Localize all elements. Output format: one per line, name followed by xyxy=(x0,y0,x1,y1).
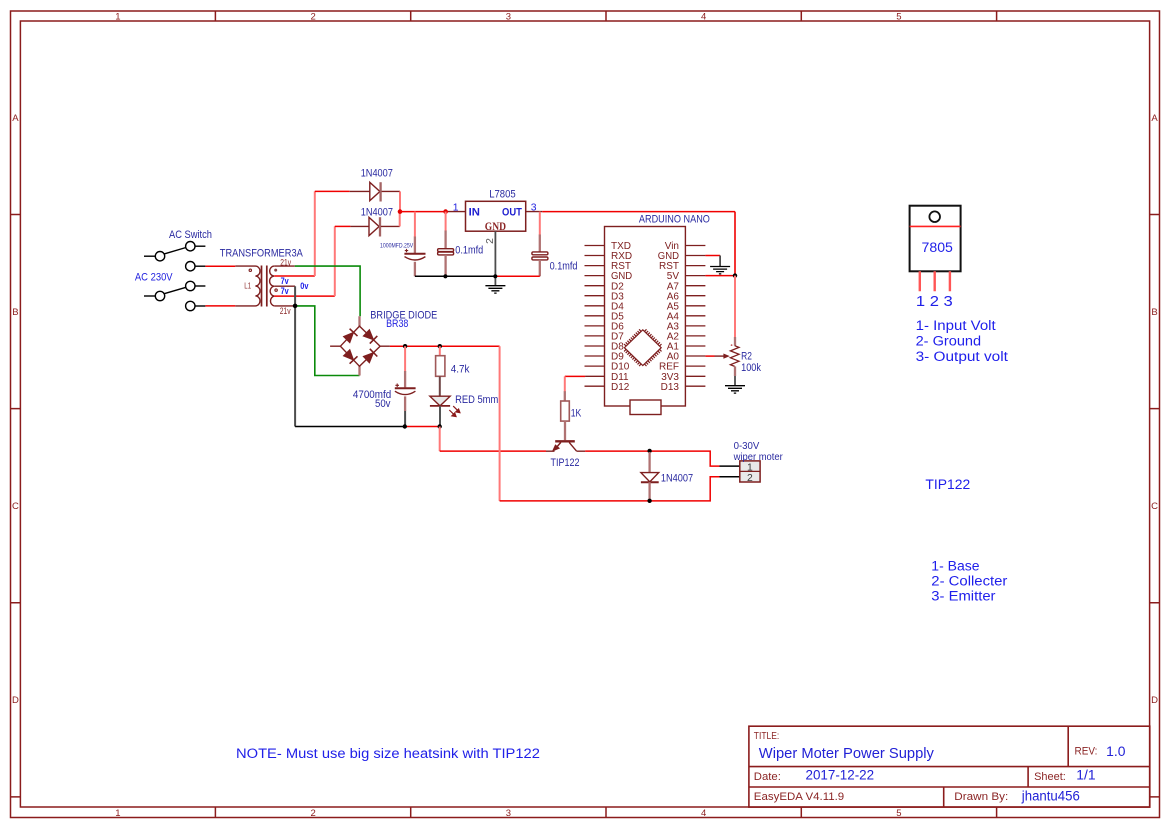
package pins xyxy=(920,271,950,291)
ground symbol at 7805 xyxy=(485,286,505,293)
capacitor C2 0.1mfd xyxy=(438,212,484,277)
wire N (switch to transformer primary bottom) xyxy=(205,305,235,307)
right pin names xyxy=(658,241,680,393)
pin GND stub right xyxy=(685,255,705,257)
capacitor C1 1000MFD 25V xyxy=(380,237,426,277)
top ticks xyxy=(215,11,996,21)
svg-text:L1: L1 xyxy=(244,281,251,291)
ground symbol at R2 xyxy=(725,386,745,393)
wire drop to C1 xyxy=(414,212,416,237)
wire LED node down to emitter rail xyxy=(439,427,441,452)
svg-text:1N4007: 1N4007 xyxy=(661,473,693,485)
svg-text:1- Base: 1- Base xyxy=(931,559,979,574)
led LED1 RED 5mm xyxy=(430,394,499,426)
svg-text:0v: 0v xyxy=(300,281,309,292)
wire 7805 OUT rail xyxy=(542,211,735,213)
resistor R1 4.7k xyxy=(436,346,471,396)
wire D2 cathode up xyxy=(399,212,401,227)
node bridge out R1 xyxy=(438,344,442,348)
svg-text:5: 5 xyxy=(896,808,901,819)
svg-text:4.7k: 4.7k xyxy=(451,363,470,375)
ANNOT xyxy=(236,206,1008,763)
node flyback top xyxy=(647,449,651,453)
node C2 gnd xyxy=(443,274,447,278)
left pin names xyxy=(611,241,632,393)
svg-text:Wiper Moter Power Supply: Wiper Moter Power Supply xyxy=(759,745,935,762)
diode D2 1N4007 xyxy=(350,207,399,237)
svg-text:0.1mfd: 0.1mfd xyxy=(455,245,483,257)
svg-text:Date:: Date: xyxy=(754,771,781,783)
bottom ticks xyxy=(215,807,996,818)
svg-text:ARDUINO NANO: ARDUINO NANO xyxy=(639,214,710,226)
svg-text:4: 4 xyxy=(701,12,706,23)
svg-text:1- Input Volt: 1- Input Volt xyxy=(916,318,996,333)
node C4 bottom xyxy=(403,424,407,428)
svg-text:jhantu456: jhantu456 xyxy=(1021,789,1080,804)
wire L (switch to transformer primary top) xyxy=(205,265,235,267)
svg-text:1: 1 xyxy=(747,462,753,473)
svg-text:1/1: 1/1 xyxy=(1076,767,1095,782)
node LED bottom xyxy=(438,424,442,428)
wire 0v gray drop xyxy=(294,286,296,426)
wire 0v bottom rail red xyxy=(405,426,440,428)
svg-text:D: D xyxy=(12,695,19,706)
svg-text:5: 5 xyxy=(896,12,901,23)
wire DC rail to 7805 IN xyxy=(400,211,448,213)
svg-text:21v: 21v xyxy=(280,257,291,267)
package drawing 7805 TO-220 xyxy=(910,206,961,310)
node rectified DC xyxy=(398,209,403,214)
potentiometer R2 100k xyxy=(715,337,762,386)
wire GND drop xyxy=(719,256,721,267)
usb connector xyxy=(630,400,661,415)
wiper arrow xyxy=(715,355,725,357)
pin 1 lead xyxy=(448,211,466,213)
svg-text:NOTE- Must use big size heatsi: NOTE- Must use big size heatsink with TI… xyxy=(236,746,540,762)
primary phase dot xyxy=(249,269,251,271)
diode D1 1N4007 xyxy=(350,168,400,202)
svg-text:D: D xyxy=(1151,695,1158,706)
transformer T1 TRANSFORMER3A xyxy=(220,248,335,316)
svg-text:A: A xyxy=(12,113,19,124)
svg-text:0.1mfd: 0.1mfd xyxy=(550,261,578,273)
svg-text:C: C xyxy=(12,501,19,512)
switch SW2 (AC Switch lower pole) xyxy=(144,281,205,310)
wire 5V down to R2 xyxy=(734,276,736,338)
svg-text:L7805: L7805 xyxy=(489,189,516,201)
switch SW1 (AC Switch upper pole) xyxy=(144,242,205,271)
bridge pins xyxy=(358,316,360,375)
svg-text:3: 3 xyxy=(506,808,511,819)
wire ground rail red part xyxy=(495,275,540,277)
secondary lead 21v top xyxy=(274,265,294,267)
wire tap4 top to D2 xyxy=(335,225,351,227)
svg-text:Sheet:: Sheet: xyxy=(1034,771,1066,783)
wire tap4 up to D2 anode xyxy=(334,226,336,296)
bridge diamond xyxy=(340,326,380,366)
led arrows xyxy=(449,406,460,416)
wire 5V pin link xyxy=(705,275,735,277)
wire 21v top green to bridge xyxy=(295,266,360,316)
right ticks xyxy=(1150,215,1160,797)
svg-text:EasyEDA V4.11.9: EasyEDA V4.11.9 xyxy=(754,791,844,803)
svg-text:0-30V: 0-30V xyxy=(734,441,760,452)
svg-text:1 2 3: 1 2 3 xyxy=(916,294,953,310)
wire D1 cathode down xyxy=(399,191,401,211)
CIRCUIT xyxy=(135,168,783,503)
bridge rectifier BR38 xyxy=(330,309,437,375)
svg-text:C: C xyxy=(1151,501,1158,512)
svg-text:2: 2 xyxy=(485,238,496,244)
svg-text:1N4007: 1N4007 xyxy=(361,168,393,180)
right pin stubs xyxy=(685,246,705,387)
bridge diode BL xyxy=(344,350,358,364)
svg-text:3- Emitter: 3- Emitter xyxy=(931,588,996,603)
transistor Q1 TIP122 xyxy=(546,441,585,469)
wire collector to motor xyxy=(585,451,719,466)
node at C2 top xyxy=(443,209,448,214)
wire drop to C4 xyxy=(404,346,406,371)
bridge diode TL xyxy=(344,329,358,343)
svg-text:1: 1 xyxy=(115,12,120,23)
wire positive rail down and motor return xyxy=(499,346,501,501)
core xyxy=(262,266,267,307)
wire ground rail under 7805 (black) xyxy=(415,275,495,277)
node 0v tap xyxy=(293,304,298,309)
bridge diode BR xyxy=(363,349,377,363)
svg-text:21v: 21v xyxy=(280,306,291,316)
pin 5V stub xyxy=(685,275,705,277)
wire tap2 top to D1 xyxy=(315,190,350,192)
capacitor C4 4700mfd 50v xyxy=(353,371,416,427)
svg-text:1000MFD.25V: 1000MFD.25V xyxy=(380,243,414,250)
secondary phase dot top (filled) xyxy=(274,269,277,272)
svg-text:2017-12-22: 2017-12-22 xyxy=(806,767,875,782)
mounting hole xyxy=(929,211,940,222)
secondary lead 0v center xyxy=(274,285,295,287)
svg-text:7v: 7v xyxy=(281,286,290,297)
svg-text:2- Ground: 2- Ground xyxy=(916,333,982,348)
bridge diode TR xyxy=(363,330,377,344)
wire 0v bottom rail black xyxy=(295,426,405,428)
svg-text:2: 2 xyxy=(747,473,753,484)
pin 2 lead xyxy=(494,231,496,286)
secondary lead 21v bottom xyxy=(274,305,295,307)
svg-text:B: B xyxy=(1151,307,1157,318)
svg-text:R2: R2 xyxy=(741,351,752,363)
wire bridge out to rail xyxy=(390,345,500,347)
svg-text:AC 230V: AC 230V xyxy=(135,271,174,283)
svg-text:3: 3 xyxy=(506,12,511,23)
svg-text:BR38: BR38 xyxy=(386,318,408,330)
wire GND pin link xyxy=(705,255,720,257)
svg-text:2- Collecter: 2- Collecter xyxy=(931,574,1008,589)
node 7805 gnd xyxy=(493,274,497,278)
wire A0 to R2 wiper xyxy=(705,355,714,357)
svg-text:TIP122: TIP122 xyxy=(551,457,580,469)
svg-text:2: 2 xyxy=(310,808,315,819)
svg-text:B: B xyxy=(12,307,18,318)
wire 5V feed from 7805 xyxy=(734,212,736,276)
svg-text:100k: 100k xyxy=(741,362,761,374)
svg-text:IN: IN xyxy=(469,206,480,218)
primary winding xyxy=(235,266,260,306)
svg-text:1N4007: 1N4007 xyxy=(361,207,393,219)
node 5V xyxy=(733,273,737,277)
capacitor C3 0.1mfd xyxy=(532,235,578,277)
wire emitter rail xyxy=(440,450,546,452)
svg-text:1: 1 xyxy=(453,203,459,214)
left ticks xyxy=(11,215,21,797)
connector P1 wiper moter xyxy=(720,441,784,484)
TITLEBLOCK xyxy=(749,726,1150,807)
wire drop to C3 xyxy=(539,212,541,235)
svg-text:3: 3 xyxy=(531,203,537,214)
secondary lead tap4 xyxy=(274,295,335,297)
svg-text:D13: D13 xyxy=(661,382,680,393)
C4 plus sign xyxy=(395,384,399,388)
svg-text:D12: D12 xyxy=(611,382,630,393)
svg-text:3- Output volt: 3- Output volt xyxy=(916,349,1009,364)
wire D11 to 1K xyxy=(565,375,585,377)
secondary phase dot mid xyxy=(275,289,277,291)
node flyback bottom xyxy=(647,499,651,503)
pin 3 lead xyxy=(526,211,543,213)
diode D3 1N4007 flyback xyxy=(641,452,693,501)
secondary lead tap2 xyxy=(274,275,315,277)
mcu U2 ARDUINO NANO xyxy=(585,214,710,415)
svg-text:TITLE:: TITLE: xyxy=(754,731,779,742)
wire 0v junction green to bridge bottom xyxy=(295,306,359,376)
svg-text:OUT: OUT xyxy=(502,206,522,218)
pin D11 stub xyxy=(585,375,604,377)
svg-text:2: 2 xyxy=(310,12,315,23)
title block outline xyxy=(749,726,1150,807)
svg-text:7805: 7805 xyxy=(922,239,954,255)
resistor R3 1K xyxy=(561,391,582,440)
svg-text:Drawn By:: Drawn By: xyxy=(954,791,1008,803)
svg-text:GND: GND xyxy=(485,221,506,233)
svg-text:1K: 1K xyxy=(571,407,582,419)
svg-text:RED 5mm: RED 5mm xyxy=(455,394,498,406)
wire tap2 up to D1 anode xyxy=(314,191,316,276)
regulator U1 L7805 xyxy=(448,189,542,286)
svg-text:TIP122: TIP122 xyxy=(925,477,970,492)
svg-text:REV:: REV: xyxy=(1075,745,1098,757)
left pin stubs xyxy=(585,246,605,387)
svg-text:A: A xyxy=(1151,113,1158,124)
chip diamond xyxy=(624,329,661,366)
svg-text:AC Switch: AC Switch xyxy=(169,229,212,241)
svg-text:1.0: 1.0 xyxy=(1106,744,1125,759)
tab line xyxy=(910,225,961,227)
svg-text:1: 1 xyxy=(115,808,120,819)
pin A0 stub xyxy=(685,355,705,357)
svg-text:4: 4 xyxy=(701,808,706,819)
secondary winding xyxy=(270,266,275,306)
ground symbol at nano xyxy=(710,267,730,274)
node bridge out C4 xyxy=(403,344,407,348)
C1 plus sign xyxy=(405,249,408,252)
svg-text:wiper moter: wiper moter xyxy=(733,452,784,463)
svg-text:50v: 50v xyxy=(375,398,391,410)
